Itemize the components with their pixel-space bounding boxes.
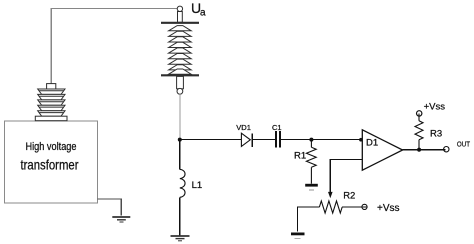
wire bbox=[281, 139, 312, 141]
wire bbox=[179, 139, 241, 141]
svg-text:D1: D1 bbox=[366, 137, 378, 148]
svg-text:R1: R1 bbox=[294, 151, 306, 162]
ground bbox=[305, 185, 318, 190]
wiper arrow bbox=[328, 192, 333, 198]
wire bbox=[253, 139, 275, 141]
wire bbox=[98, 199, 122, 216]
wire bbox=[179, 197, 181, 236]
terminal OUT bbox=[444, 147, 449, 152]
svg-text:L1: L1 bbox=[192, 180, 203, 191]
potentiometer R2 bbox=[319, 201, 342, 213]
wire bbox=[179, 94, 181, 140]
svg-text:High voltage: High voltage bbox=[26, 141, 77, 153]
terminal +Vss bbox=[417, 111, 422, 116]
wire bbox=[179, 140, 181, 170]
ground bbox=[291, 234, 305, 239]
svg-text:transformer: transformer bbox=[21, 157, 79, 173]
capacitor C1 bbox=[276, 131, 280, 148]
wire bbox=[342, 206, 367, 208]
ground bbox=[112, 217, 130, 222]
svg-text:VD1: VD1 bbox=[236, 123, 251, 132]
op-amp D1 bbox=[362, 130, 402, 170]
wire bbox=[330, 159, 362, 192]
svg-text:C1: C1 bbox=[272, 123, 282, 132]
resistor R1 bbox=[306, 140, 316, 184]
svg-text:a: a bbox=[200, 8, 206, 19]
node bbox=[417, 148, 421, 152]
wire bbox=[311, 139, 362, 141]
resistor R3 bbox=[415, 114, 423, 150]
node bbox=[359, 138, 363, 142]
wire bbox=[403, 149, 446, 151]
svg-text:R3: R3 bbox=[430, 129, 442, 140]
ground bbox=[171, 236, 190, 241]
transformer T1 box bbox=[5, 121, 98, 203]
bushing bbox=[35, 84, 67, 121]
terminal Ua bbox=[177, 6, 182, 11]
svg-text:+Vss: +Vss bbox=[424, 102, 446, 113]
node bbox=[309, 138, 313, 142]
terminal +Vss bbox=[362, 204, 367, 209]
svg-text:OUT: OUT bbox=[457, 140, 471, 149]
wire bbox=[298, 207, 320, 232]
inductor L1 bbox=[180, 169, 185, 197]
node bbox=[178, 138, 182, 142]
diode VD1 bbox=[241, 133, 252, 147]
svg-text:+Vss: +Vss bbox=[377, 203, 400, 214]
wire bbox=[51, 9, 177, 84]
svg-text:R2: R2 bbox=[343, 191, 355, 202]
insulator bbox=[161, 12, 199, 95]
